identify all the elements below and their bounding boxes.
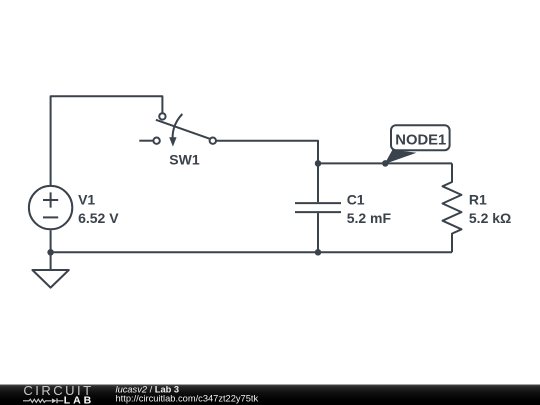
label C1 value 5.2 mF (347, 210, 392, 226)
wire NODE1 net from center column to R1 (318, 162, 452, 164)
label SW1 (169, 152, 200, 168)
resistor R1 (443, 163, 462, 252)
node dot NODE1 anchor (382, 160, 389, 167)
label V1 value 6.52 V (78, 210, 119, 226)
footer CircuitLab logo (23, 383, 94, 405)
svg-text:http://circuitlab.com/c347zt22: http://circuitlab.com/c347zt22y75tk (116, 394, 259, 404)
wire from V1 bottom to ground junction (50, 230, 52, 252)
footer bar (0, 385, 540, 405)
svg-text:5.2 kΩ: 5.2 kΩ (469, 210, 511, 226)
junction dot at center column / NODE1 wire (315, 160, 322, 167)
svg-text:5.2 mF: 5.2 mF (347, 210, 392, 226)
voltage source V1 (29, 186, 72, 229)
junction dot at V1/ground/bottom rail (47, 249, 54, 256)
wire from SW1 right throw terminal to center column (216, 141, 318, 203)
svg-text:SW1: SW1 (169, 152, 200, 168)
svg-text:V1: V1 (78, 192, 95, 208)
junction dot at C1 bottom / bottom rail (315, 249, 322, 256)
wire bottom rail from V1/ground junction to R1 bottom (51, 251, 452, 253)
svg-text:6.52 V: 6.52 V (78, 210, 119, 226)
svg-text:NODE1: NODE1 (395, 132, 446, 148)
wire from V1 top up and across to SW1 common terminal (51, 96, 163, 186)
label R1 (469, 192, 487, 208)
switch SW1 (139, 113, 216, 146)
footer attribution text (116, 385, 259, 404)
ground symbol (32, 252, 68, 287)
node flag NODE1 (385, 125, 450, 164)
label R1 value 5.2 kOhm (469, 210, 511, 226)
label V1 (78, 192, 95, 208)
wire from C1 bottom plate down to bottom rail (317, 213, 319, 252)
label C1 (347, 192, 365, 208)
capacitor C1 (295, 203, 341, 212)
svg-text:LAB: LAB (64, 395, 94, 405)
svg-text:C1: C1 (347, 192, 365, 208)
svg-text:R1: R1 (469, 192, 487, 208)
